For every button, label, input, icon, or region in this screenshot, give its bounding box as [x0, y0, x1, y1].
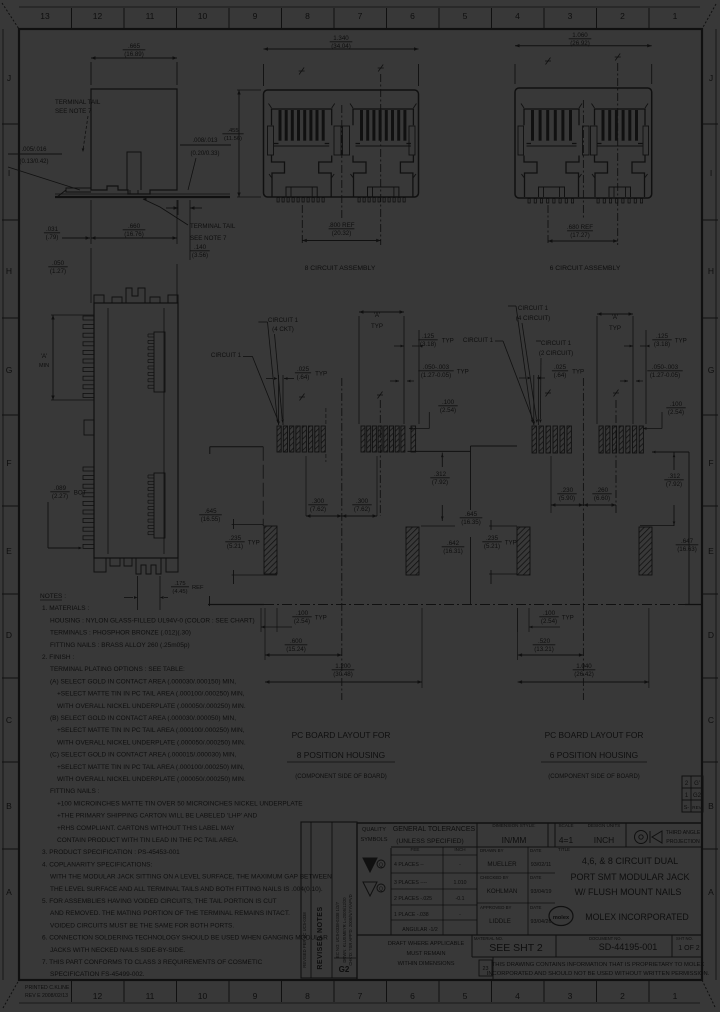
6pos port centerline: [615, 400, 617, 513]
svg-text:APPROVED BY: APPROVED BY: [480, 905, 512, 910]
svg-text:G: G: [6, 365, 13, 375]
svg-text:10: 10: [198, 11, 208, 21]
svg-text:SEE SHT 2: SEE SHT 2: [489, 942, 543, 954]
dim .140 (3.56): [177, 200, 179, 215]
svg-text:FEE: FEE: [411, 847, 420, 852]
svg-text:'A': 'A': [374, 312, 381, 319]
svg-text:6 CIRCUIT ASSEMBLY: 6 CIRCUIT ASSEMBLY: [550, 265, 621, 272]
svg-text:6. CONNECTION SOLDERING TECHNO: 6. CONNECTION SOLDERING TECHNOLOGY SHOUL…: [42, 935, 328, 942]
svg-text:.680 REF: .680 REF: [567, 224, 593, 231]
svg-text:DATE: DATE: [530, 848, 541, 853]
svg-text:FITTING NAILS : BRASS ALLOY 26: FITTING NAILS : BRASS ALLOY 260 (.25m05p…: [50, 642, 190, 649]
svg-text:2: 2: [620, 11, 625, 21]
svg-text:WITHIN DIMENSIONS: WITHIN DIMENSIONS: [398, 961, 455, 967]
svg-text:7: 7: [358, 991, 363, 1001]
svg-text:11: 11: [146, 991, 155, 1001]
svg-text:PROJECTION: PROJECTION: [666, 839, 700, 845]
side tab left middle: [84, 420, 94, 435]
svg-text:6 POSITION HOUSING: 6 POSITION HOUSING: [550, 750, 638, 760]
svg-text:MATERIAL NO.: MATERIAL NO.: [474, 936, 503, 941]
svg-text:SCALE: SCALE: [558, 823, 573, 828]
top mounting features: [94, 295, 104, 303]
svg-text:+THE PRIMARY SHIPPING CARTON W: +THE PRIMARY SHIPPING CARTON WILL BE LAB…: [57, 813, 258, 820]
svg-text:E: E: [6, 546, 12, 556]
corner diagonal top-right: [702, 4, 716, 29]
6pos pad group right: [599, 426, 603, 453]
8ckt right jack opening: [353, 156, 366, 198]
svg-text:(2.54): (2.54): [668, 409, 684, 416]
svg-text:9: 9: [253, 11, 258, 21]
svg-text:PC BOARD LAYOUT FOR: PC BOARD LAYOUT FOR: [292, 730, 391, 740]
svg-text:TERMINAL TAIL: TERMINAL TAIL: [55, 99, 101, 106]
svg-text:(B) SELECT GOLD IN CONTACT ARE: (B) SELECT GOLD IN CONTACT AREA (.000030…: [50, 715, 236, 722]
8pos dim A TYP: [359, 311, 404, 313]
svg-text:molex: molex: [553, 915, 570, 921]
svg-text:8: 8: [305, 11, 310, 21]
svg-text:(17.27): (17.27): [570, 232, 590, 239]
svg-text:(2.54): (2.54): [440, 407, 456, 414]
svg-text:12: 12: [93, 11, 103, 21]
svg-text:TYP: TYP: [457, 368, 469, 375]
8pos extension lines above pads: [278, 375, 280, 425]
svg-text:93/04/19: 93/04/19: [531, 889, 552, 895]
contact comb lower: [154, 473, 165, 538]
svg-text:11: 11: [146, 11, 155, 21]
svg-text:.645: .645: [204, 508, 217, 515]
svg-text:TYP: TYP: [505, 539, 517, 546]
8pos dim .600 below: [264, 608, 266, 660]
svg-text:93/02/11: 93/02/11: [531, 862, 552, 868]
svg-text:6: 6: [410, 991, 415, 1001]
svg-text:(16.31): (16.31): [443, 548, 463, 555]
svg-text:I: I: [710, 168, 712, 178]
svg-text:+RHS COMPLIANT. CARTONS WITHOU: +RHS COMPLIANT. CARTONS WITHOUT THIS LAB…: [57, 825, 235, 832]
title block row1 dividers: [390, 848, 392, 935]
svg-text:MUELLER: MUELLER: [487, 861, 517, 868]
svg-text:(1.27): (1.27): [50, 268, 66, 275]
svg-text:(1.27-0.05): (1.27-0.05): [650, 372, 680, 379]
revision strip box: [301, 822, 357, 978]
svg-text:SHT NO.: SHT NO.: [676, 936, 693, 941]
svg-text:PORT SMT MODULAR JACK: PORT SMT MODULAR JACK: [570, 872, 689, 882]
svg-text:REVISED NOTES: REVISED NOTES: [317, 906, 324, 969]
svg-text:(2.54): (2.54): [294, 618, 310, 625]
svg-text:DRAWN BY: DRAWN BY: [480, 848, 504, 853]
svg-text:(.64): (.64): [297, 374, 310, 381]
terminal tails group A: [83, 316, 94, 320]
svg-text:1.340: 1.340: [333, 35, 349, 42]
svg-text:1: 1: [673, 991, 678, 1001]
svg-text:1 OF 2: 1 OF 2: [678, 945, 700, 952]
svg-text:1 PLACE -.038: 1 PLACE -.038: [394, 912, 429, 918]
svg-text:.100: .100: [442, 399, 455, 406]
svg-text:JACKS WITH NECKED NAILS SIDE-B: JACKS WITH NECKED NAILS SIDE-BY-SIDE.: [50, 947, 185, 954]
svg-text:(A) SELECT GOLD IN CONTACT ARE: (A) SELECT GOLD IN CONTACT AREA (.000030…: [50, 678, 236, 685]
svg-text:.100: .100: [543, 610, 556, 617]
svg-text:SYMBOLS: SYMBOLS: [360, 837, 387, 843]
svg-text:CIRCUIT 1: CIRCUIT 1: [541, 340, 572, 347]
dim .680 REF: [547, 205, 549, 245]
svg-text:+SELECT MATTE TIN IN PC TAIL A: +SELECT MATTE TIN IN PC TAIL AREA (.0001…: [57, 691, 245, 698]
svg-text:REV E 2008/02/13: REV E 2008/02/13: [25, 993, 68, 999]
dim .660 (16.76): [90, 200, 92, 244]
svg-text:WITH THE MODULAR JACK SITTING: WITH THE MODULAR JACK SITTING ON A LEVEL…: [50, 874, 332, 881]
svg-text:TYP: TYP: [442, 337, 454, 344]
corner diagonal bottom-left: [3, 980, 19, 1008]
6pos dim .230 left: [550, 456, 552, 513]
6pos dim A typ: [597, 313, 633, 315]
svg-text:8: 8: [305, 991, 310, 1001]
svg-text:.050: .050: [52, 260, 65, 267]
svg-text:CIRCUIT 1: CIRCUIT 1: [211, 352, 242, 359]
svg-text:TITLE: TITLE: [558, 847, 570, 852]
svg-text:B: B: [708, 801, 714, 811]
svg-text:G: G: [708, 365, 715, 375]
svg-text:A: A: [6, 887, 12, 897]
svg-text:TERMINAL PLATING OPTIONS : SEE: TERMINAL PLATING OPTIONS : SEE TABLE:: [50, 666, 185, 673]
sheet outer edge: [19, 6, 700, 8]
6pos nail pad left: [517, 527, 530, 575]
drawn/checked/approved rows: [477, 846, 555, 848]
svg-text:NOTES :: NOTES :: [40, 593, 66, 600]
svg-text:IN/MM: IN/MM: [502, 835, 527, 845]
svg-text:.647: .647: [681, 538, 694, 545]
svg-text:(7.62): (7.62): [354, 506, 370, 513]
dim 1.340 (34.04): [263, 64, 265, 86]
svg-text:-0.1: -0.1: [456, 896, 465, 902]
svg-text:3. PRODUCT SPECIFICATION : PS-: 3. PRODUCT SPECIFICATION : PS-45453-001: [42, 849, 180, 856]
svg-text:12: 12: [93, 991, 103, 1001]
tolerance table: [391, 854, 477, 856]
svg-text:4 PLACES --: 4 PLACES --: [394, 862, 424, 868]
svg-text:.031: .031: [46, 226, 59, 233]
svg-text:SEE NOTE 7: SEE NOTE 7: [190, 235, 227, 242]
svg-text:.008/.013: .008/.013: [192, 138, 218, 144]
svg-text:1.060: 1.060: [572, 32, 588, 39]
dim .665 (16.89): [90, 62, 92, 85]
svg-text:(2 CIRCUIT): (2 CIRCUIT): [539, 350, 573, 357]
svg-text:(16.76): (16.76): [124, 231, 144, 238]
svg-text:DATE: DATE: [530, 905, 541, 910]
molex logo: [549, 907, 573, 926]
svg-text:WITH OVERALL NICKEL UNDERPLATE: WITH OVERALL NICKEL UNDERPLATE (.000050/…: [57, 703, 246, 710]
8pos pad group left: [277, 426, 281, 452]
quality symbol triangles: [363, 858, 377, 872]
svg-text:MOLEX INCORPORATED: MOLEX INCORPORATED: [585, 912, 688, 922]
svg-text:INCH: INCH: [594, 835, 614, 845]
6ckt left jack opening: [524, 156, 537, 198]
svg-text:.642: .642: [447, 540, 460, 547]
svg-text:.235: .235: [229, 535, 242, 542]
svg-text:2: 2: [620, 991, 625, 1001]
svg-text:(2.27): (2.27): [52, 493, 68, 500]
svg-text:D: D: [708, 630, 714, 640]
svg-text:.645: .645: [465, 511, 478, 518]
svg-text:7: 7: [358, 11, 363, 21]
svg-text:TYP: TYP: [572, 368, 584, 375]
6pos pad group left: [532, 426, 536, 453]
svg-text:.050-.003: .050-.003: [423, 364, 450, 371]
svg-text:TYP: TYP: [315, 614, 327, 621]
title block outer: [357, 822, 702, 824]
svg-text:(0.13/0.42): (0.13/0.42): [19, 159, 48, 165]
nail arm left: [66, 188, 91, 192]
svg-text:(20.32): (20.32): [332, 230, 352, 237]
svg-text:(16.55): (16.55): [201, 516, 221, 523]
svg-text:(2.54): (2.54): [541, 618, 557, 625]
svg-text:DRWN: KLUSMEYR L=2005/12/20: DRWN: KLUSMEYR L=2005/12/20: [342, 897, 347, 963]
svg-text:(0.20/0.33): (0.20/0.33): [190, 151, 219, 157]
svg-text:(.79): (.79): [46, 234, 59, 241]
dim (A) vertical: [51, 314, 94, 316]
third angle projection symbol: [635, 831, 648, 844]
svg-text:(1.27-0.05): (1.27-0.05): [421, 372, 451, 379]
svg-text:REF: REF: [192, 585, 204, 591]
svg-text:(15.24): (15.24): [286, 646, 306, 653]
6ckt housing outline: [515, 88, 652, 198]
8pos port centerline: [379, 400, 381, 516]
svg-text:6: 6: [410, 11, 415, 21]
dim .800 REF: [301, 205, 303, 245]
svg-text:1. MATERIALS :: 1. MATERIALS :: [42, 605, 89, 612]
svg-text:THIRD ANGLE: THIRD ANGLE: [666, 830, 701, 836]
svg-text:.235: .235: [486, 535, 499, 542]
8pos left bracket and nail pad: [210, 446, 263, 448]
svg-text:.260: .260: [596, 487, 609, 494]
svg-text:SEE NOTE 7: SEE NOTE 7: [55, 108, 92, 115]
svg-text:MIN: MIN: [39, 363, 49, 369]
svg-text:.300: .300: [312, 498, 325, 505]
svg-text:5: 5: [463, 11, 468, 21]
svg-text:(5.21): (5.21): [227, 543, 243, 550]
svg-text:PC BOARD LAYOUT FOR: PC BOARD LAYOUT FOR: [545, 730, 644, 740]
svg-text:.175: .175: [174, 581, 185, 587]
svg-text:4. COPLANARITY SPECIFICATIONS:: 4. COPLANARITY SPECIFICATIONS:: [42, 861, 152, 868]
svg-text:3: 3: [568, 991, 573, 1001]
svg-text:.025: .025: [297, 366, 310, 373]
svg-text:5: 5: [463, 991, 468, 1001]
svg-text:TYP: TYP: [609, 325, 621, 332]
projection lines between views: [90, 248, 92, 303]
svg-text:G2: G2: [339, 965, 350, 974]
6pos right bracket: [652, 451, 689, 453]
svg-text:C: C: [708, 715, 714, 725]
svg-text:CHECKED BY: CHECKED BY: [480, 875, 509, 880]
svg-text:.660: .660: [128, 223, 141, 230]
svg-text:TERMINALS : PHOSPHOR BRONZE (.: TERMINALS : PHOSPHOR BRONZE (.012)(.30): [50, 630, 191, 637]
svg-text:+SELECT MATTE TIN IN PC TAIL A: +SELECT MATTE TIN IN PC TAIL AREA (.0001…: [57, 764, 245, 771]
svg-text:.089: .089: [54, 485, 67, 492]
svg-text:(30.48): (30.48): [333, 671, 353, 678]
svg-text:1.200: 1.200: [335, 663, 351, 670]
svg-text:1.010: 1.010: [454, 880, 467, 886]
svg-text:SPECIFICATION FS-45499-002.: SPECIFICATION FS-45499-002.: [50, 971, 145, 978]
svg-text:.230: .230: [561, 487, 574, 494]
svg-text:H: H: [6, 266, 12, 276]
svg-text:BOT: BOT: [74, 489, 87, 496]
svg-text:.100: .100: [670, 401, 683, 408]
6pos nail pad right: [639, 527, 652, 575]
svg-text:INCH: INCH: [454, 847, 465, 852]
svg-text:REVISED PER EC UC5-0338: REVISED PER EC UC5-0338: [302, 912, 307, 968]
svg-text:7. THIS PART CONFORMS TO CLASS: 7. THIS PART CONFORMS TO CLASS 3 REQUIRE…: [42, 959, 263, 966]
svg-text:4: 4: [515, 991, 520, 1001]
svg-text:G': G': [694, 781, 700, 787]
svg-text:5. FOR ASSEMBLIES HAVING VOIDE: 5. FOR ASSEMBLIES HAVING VOIDED CIRCUITS…: [42, 898, 277, 905]
6pos dim 1.040 below: [648, 608, 650, 688]
svg-text:.125: .125: [422, 333, 435, 340]
svg-text:.300: .300: [356, 498, 369, 505]
6pos housing centerline: [582, 378, 584, 700]
svg-text:(16.89): (16.89): [124, 51, 144, 58]
8ckt housing outline: [264, 90, 419, 197]
svg-text:Q: Q: [379, 863, 383, 869]
svg-text:CONTAIN PRODUCT WITH TIN LEAD: CONTAIN PRODUCT WITH TIN LEAD IN THE PC …: [57, 837, 239, 844]
svg-text:(COMPONENT SIDE OF BOARD): (COMPONENT SIDE OF BOARD): [295, 774, 387, 780]
svg-text:(6.60): (6.60): [594, 495, 610, 502]
svg-text:.312: .312: [668, 473, 681, 480]
svg-text:CIRCUIT 1: CIRCUIT 1: [518, 305, 549, 312]
svg-text:'A': 'A': [41, 353, 48, 360]
svg-text:CIRCUIT 1: CIRCUIT 1: [268, 317, 299, 324]
pc board line: [55, 196, 230, 198]
svg-text:WITH OVERALL NICKEL UNDERPLATE: WITH OVERALL NICKEL UNDERPLATE (.000050/…: [57, 739, 246, 746]
svg-text:.665: .665: [128, 43, 141, 50]
svg-text:FITTING NAILS :: FITTING NAILS :: [50, 788, 100, 795]
8pos dim 1.200 below: [421, 608, 423, 688]
8ckt bottom terminals: [277, 198, 279, 203]
svg-text:MUST REMAIN: MUST REMAIN: [406, 951, 445, 957]
svg-text:I: I: [8, 168, 10, 178]
svg-text:(16.63): (16.63): [677, 546, 697, 553]
6pos dim .520 below: [517, 608, 519, 660]
svg-text:8 CIRCUIT ASSEMBLY: 8 CIRCUIT ASSEMBLY: [305, 265, 376, 272]
svg-text:F: F: [708, 458, 713, 468]
svg-text:TYP: TYP: [675, 337, 687, 344]
svg-text:THIS DRAWING CONTAINS INFORMAT: THIS DRAWING CONTAINS INFORMATION THAT I…: [492, 962, 705, 968]
6ckt fitting nail slots: [518, 126, 524, 155]
svg-text:G2: G2: [693, 793, 702, 799]
svg-text:DATE: DATE: [530, 875, 541, 880]
svg-text:.125: .125: [656, 333, 669, 340]
side view center post: [127, 152, 141, 190]
svg-text:(13.21): (13.21): [534, 646, 554, 653]
svg-text:TYP: TYP: [315, 370, 327, 377]
svg-text:1.040: 1.040: [576, 663, 592, 670]
svg-text:(26.92): (26.92): [570, 40, 590, 47]
svg-text:ANGULAR -1/2: ANGULAR -1/2: [402, 927, 438, 933]
6ckt housing centerline: [582, 100, 584, 218]
8ckt right port centerline: [380, 74, 382, 245]
svg-text:(.64): (.64): [554, 372, 567, 379]
svg-text:(3.18): (3.18): [654, 341, 670, 348]
svg-text:WITH OVERALL NICKEL UNDERPLATE: WITH OVERALL NICKEL UNDERPLATE (.000050/…: [57, 776, 246, 783]
6ckt right port centerline: [617, 63, 619, 245]
pc board edge line: [209, 596, 211, 606]
6ckt centerline symbols: [546, 58, 551, 65]
svg-text:C: C: [6, 715, 12, 725]
svg-text:(7.92): (7.92): [666, 481, 682, 488]
svg-text:E: E: [708, 546, 714, 556]
8ckt fitting nail slots: [268, 126, 274, 155]
svg-text:J: J: [709, 73, 713, 83]
svg-text:DIMENSION STYLE:: DIMENSION STYLE:: [492, 823, 535, 828]
8pos right bracket: [408, 450, 471, 452]
6ckt bottom terminals: [528, 199, 530, 204]
contact comb upper: [154, 332, 165, 392]
svg-text:J: J: [7, 73, 11, 83]
dim .455 (11.56) left of 8ckt: [237, 89, 261, 91]
8ckt left jack opening: [272, 156, 285, 198]
svg-text:THE LEVEL SURFACE AND ALL TERM: THE LEVEL SURFACE AND ALL TERMINAL TAILS…: [50, 886, 323, 893]
svg-text:3 PLACES ----: 3 PLACES ----: [394, 880, 427, 886]
svg-text:+100 MICROINCHES MATTE TIN OVE: +100 MICROINCHES MATTE TIN OVER 50 MICRO…: [57, 800, 303, 807]
rev table: [682, 776, 703, 812]
8ckt housing centerline: [341, 105, 343, 218]
8ckt centerline symbols: [299, 68, 304, 75]
svg-text:AND REMOVED. THE MATING PORTIO: AND REMOVED. THE MATING PORTION OF THE T…: [50, 910, 290, 917]
8pos pad group right: [361, 426, 365, 452]
svg-text:(C) SELECT GOLD IN CONTACT ARE: (C) SELECT GOLD IN CONTACT AREA (.000015…: [50, 752, 237, 759]
bottom mounting features: [94, 558, 106, 572]
dim .175 (4.45) REF: [137, 576, 139, 610]
svg-text:TYP: TYP: [248, 539, 260, 546]
8pos nail pad right: [406, 527, 419, 575]
svg-text:DOCUMENT NO.: DOCUMENT NO.: [589, 936, 622, 941]
8pos single pad right: [411, 426, 416, 452]
svg-text:(4 CKT): (4 CKT): [272, 326, 294, 333]
svg-text:(UNLESS SPECIFIED): (UNLESS SPECIFIED): [396, 838, 463, 845]
8pos housing centerline: [341, 378, 343, 700]
svg-text:(26.42): (26.42): [574, 671, 594, 678]
svg-text:4,6, & 8 CIRCUIT DUAL: 4,6, & 8 CIRCUIT DUAL: [582, 856, 678, 866]
side view body outline: [91, 89, 177, 194]
svg-text:13: 13: [40, 11, 50, 21]
svg-text:.140: .140: [194, 244, 207, 251]
svg-text:-: -: [459, 862, 461, 868]
svg-text:9: 9: [253, 991, 258, 1001]
svg-text:QUALITY: QUALITY: [362, 827, 386, 833]
svg-text:S-: S-: [684, 805, 690, 811]
svg-text:.600: .600: [290, 638, 303, 645]
svg-text:.455: .455: [227, 128, 238, 134]
6pos left bracket: [471, 445, 518, 447]
corner diagonal bottom-right: [702, 980, 715, 1007]
svg-text:.800 REF: .800 REF: [328, 222, 354, 229]
svg-text:F: F: [6, 458, 11, 468]
svg-text:TYP: TYP: [562, 614, 574, 621]
ps box: [479, 960, 492, 976]
corner diagonal top-left: [2, 3, 19, 29]
svg-text:(3.56): (3.56): [192, 252, 208, 259]
svg-text:8 POSITION HOUSING: 8 POSITION HOUSING: [297, 750, 385, 760]
svg-text:W/ FLUSH MOUNT NAILS: W/ FLUSH MOUNT NAILS: [575, 887, 682, 897]
svg-text:(7.62): (7.62): [310, 506, 326, 513]
svg-text:.100: .100: [296, 610, 309, 617]
svg-text:4: 4: [515, 11, 520, 21]
svg-text:LIDDLE: LIDDLE: [489, 918, 511, 925]
svg-text:CIRCUIT 1: CIRCUIT 1: [463, 337, 494, 344]
svg-text:B: B: [6, 801, 12, 811]
svg-text:(5.21): (5.21): [484, 543, 500, 550]
svg-text:3: 3: [568, 11, 573, 21]
svg-text:PRINTED C.KLINE: PRINTED C.KLINE: [25, 985, 70, 991]
svg-text:REV: REV: [692, 805, 702, 810]
svg-text:(7.92): (7.92): [432, 479, 448, 486]
svg-text:.005/.016: .005/.016: [21, 147, 47, 153]
8pos dim .300 right: [376, 456, 378, 516]
svg-text:(COMPONENT SIDE OF BOARD): (COMPONENT SIDE OF BOARD): [548, 774, 640, 780]
